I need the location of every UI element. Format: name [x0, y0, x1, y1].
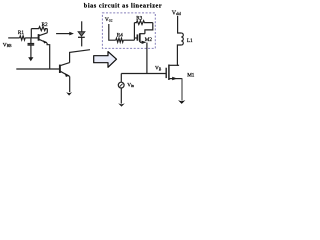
- ground arrow under capacitor: [30, 45, 32, 57]
- svg-text:R2: R2: [42, 22, 48, 28]
- wire R1 to Q1 base: [25, 37, 38, 39]
- svg-text:VBB: VBB: [3, 42, 12, 48]
- transistor M2: [136, 34, 138, 40]
- resistor R4: [116, 38, 124, 42]
- wire Vin to ground: [120, 88, 122, 104]
- transistor Q1: [38, 34, 40, 41]
- wire Q2 emitter down: [69, 77, 71, 93]
- dashed bias box: [102, 13, 155, 49]
- svg-text:Vin: Vin: [127, 82, 134, 88]
- wire M2 source down to VB: [146, 43, 148, 74]
- block arrow: [94, 52, 117, 68]
- wire Vcc down: [109, 24, 116, 40]
- diode D1: [81, 21, 83, 32]
- svg-text:L1: L1: [187, 38, 193, 44]
- resistor R1: [20, 36, 26, 40]
- inductor L1: [181, 33, 183, 45]
- wire VBB to R1: [8, 37, 19, 39]
- svg-text:R3: R3: [136, 16, 142, 22]
- wire R3 to M2 drain step: [145, 23, 153, 34]
- svg-text:R1: R1: [18, 30, 24, 36]
- svg-text:Vcc: Vcc: [105, 17, 113, 23]
- M1 drain wire: [169, 64, 179, 66]
- transistor M1 gate bar: [165, 68, 167, 78]
- wire Q2 collector up and right: [70, 50, 90, 63]
- equivalence arrow: [56, 33, 70, 35]
- ground under M1: [178, 100, 185, 104]
- ground under Vin: [118, 103, 125, 106]
- wire M1 source to ground: [181, 78, 183, 100]
- wire VB line to M1 gate: [121, 73, 165, 75]
- svg-text:M2: M2: [145, 37, 153, 43]
- svg-text:Vdd: Vdd: [172, 10, 182, 16]
- transistor Q2: [59, 65, 61, 73]
- capacitor C1: [30, 38, 32, 43]
- wire R4 to gate node: [123, 39, 134, 41]
- ground under Q2: [66, 92, 72, 95]
- wire L1 down to M1 drain: [177, 45, 181, 66]
- wire gate node up: [133, 23, 135, 41]
- svg-text:bias circuit as linearizer: bias circuit as linearizer: [84, 2, 162, 9]
- resistor R2: [31, 27, 47, 31]
- wire node to R2 loop: [30, 29, 32, 38]
- svg-text:VB: VB: [155, 65, 162, 71]
- M1 source wire with arrow: [169, 78, 182, 80]
- svg-text:R4: R4: [117, 33, 123, 39]
- wire base line B: [16, 68, 59, 70]
- transistor M1 channel bar: [168, 65, 170, 81]
- wire Vdd down: [178, 16, 182, 33]
- source Vin: [120, 74, 122, 83]
- wire Q1 emitter jog down: [47, 43, 50, 69]
- wire R2 to Q1 collector: [46, 29, 48, 33]
- resistor R3: [134, 21, 152, 25]
- gate stub to M2: [134, 37, 137, 39]
- svg-text:M1: M1: [187, 73, 195, 79]
